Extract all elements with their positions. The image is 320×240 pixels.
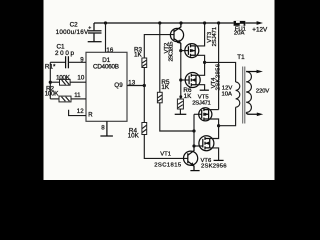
wire VT2 emitter bus <box>180 51 182 99</box>
svg-text:8: 8 <box>101 124 105 131</box>
wire pin 13 Q9 output <box>127 85 144 87</box>
wire R5 to node N1 <box>160 103 194 131</box>
node N2 VT6 gate <box>192 144 195 147</box>
node A primary top <box>203 61 206 64</box>
svg-text:+12V: +12V <box>252 26 268 33</box>
label R1* 100K <box>45 64 71 82</box>
label R6 1K <box>183 87 192 100</box>
ground VT4 source <box>200 89 209 91</box>
wire VT2 base to R3 top <box>144 35 174 58</box>
svg-text:100K: 100K <box>45 90 60 97</box>
svg-text:2SJ471: 2SJ471 <box>192 100 211 106</box>
svg-text:9: 9 <box>80 56 84 63</box>
wire pin 16 <box>105 23 107 52</box>
wire T1 primary bottom to node B <box>219 107 236 126</box>
label C1 200p <box>55 43 74 56</box>
node rail to pin 16 <box>104 21 107 24</box>
wire VT4 gate <box>181 79 189 81</box>
wire VT3 source to rail <box>195 23 204 46</box>
wire bus to R1 <box>50 81 59 83</box>
wire VT6 drain to node B <box>210 126 219 139</box>
node N1 <box>192 129 195 132</box>
wire +12V supply rail <box>94 22 234 24</box>
wire VT5 drain to node B <box>209 119 219 126</box>
wire Q9 node to R4 <box>143 86 145 123</box>
ground R6 <box>175 113 187 115</box>
svg-text:10A: 10A <box>222 92 233 98</box>
wire N1 to N2 <box>193 131 195 146</box>
resistor R6 <box>177 99 183 109</box>
svg-text:Q9: Q9 <box>114 82 123 89</box>
arrowhead secondary top <box>257 70 263 74</box>
wire R1 to pin 10 <box>70 81 86 83</box>
capacitor C1 <box>66 56 69 68</box>
label FU1 20A <box>234 27 246 37</box>
transistor VT5 2SJ471 <box>199 108 212 121</box>
wire bus to R2 <box>50 98 59 100</box>
svg-text:R1*: R1* <box>45 64 56 71</box>
label R2 100K <box>45 85 60 97</box>
svg-text:2SK2956: 2SK2956 <box>201 164 227 170</box>
svg-text:12: 12 <box>77 108 84 115</box>
wire C1 left lead <box>50 61 65 63</box>
node Q9 junction <box>143 84 146 87</box>
svg-text:VT5: VT5 <box>198 94 210 100</box>
svg-text:2SJ471: 2SJ471 <box>212 27 218 47</box>
node VT4 gate <box>179 78 182 81</box>
transistor VT3 2SJ471 <box>185 44 199 58</box>
transistor VT4 2SK2956 <box>185 73 200 88</box>
wire left bus <box>49 62 51 99</box>
label R4 10K <box>128 128 140 140</box>
wire VT5 source stub <box>209 109 219 111</box>
wire node N1 to VT5 gate <box>193 114 195 131</box>
wire VT5 gate <box>194 113 202 115</box>
resistor R1 <box>60 79 71 85</box>
transformer T1 primary winding <box>236 82 240 107</box>
svg-text:T1: T1 <box>237 54 245 61</box>
T1 core <box>243 67 245 124</box>
+12V output arrowhead <box>257 21 263 25</box>
transformer T1 secondary winding <box>246 72 251 113</box>
ground VT6 source <box>214 159 224 161</box>
wire fuse to arrow <box>245 22 257 24</box>
svg-text:16: 16 <box>106 47 113 54</box>
node rail VT5 source <box>217 21 220 24</box>
wire VT4 drain to node A <box>196 62 205 75</box>
IC D1 CD4060B body <box>86 52 127 121</box>
wire VT4 source down <box>196 85 205 91</box>
transistor VT2 2SC1815 <box>170 23 183 51</box>
svg-text:220V: 220V <box>256 88 270 94</box>
resistor R3 <box>142 58 147 68</box>
wire pin 8 down <box>106 121 108 136</box>
transistor VT1 2SC1815 <box>184 146 198 171</box>
wire VT6 source down <box>210 148 219 161</box>
svg-text:20A: 20A <box>234 31 245 37</box>
fuse FU1 <box>234 21 246 26</box>
svg-text:R: R <box>88 113 93 119</box>
svg-text:13: 13 <box>128 80 135 87</box>
resistor R2 <box>59 96 71 102</box>
resistor R4 <box>142 123 147 135</box>
node B primary bottom <box>217 124 220 127</box>
wire VT3 gate <box>181 50 189 52</box>
svg-text:1000u/16V: 1000u/16V <box>56 29 89 36</box>
wire R4 to VT1 base <box>144 135 188 159</box>
svg-text:1K: 1K <box>184 93 193 100</box>
label R3 1K <box>134 46 143 58</box>
node left bus R1 <box>49 81 52 84</box>
wire pin 12 stub <box>69 110 86 116</box>
node rail to R5 <box>158 21 161 24</box>
ground VT1 emitter <box>190 170 199 172</box>
svg-text:200p: 200p <box>55 50 74 57</box>
svg-text:1K: 1K <box>134 51 143 58</box>
label R5 1K <box>161 79 170 91</box>
svg-text:CD4060B: CD4060B <box>93 63 119 70</box>
svg-text:11: 11 <box>74 92 81 99</box>
svg-text:VT1: VT1 <box>160 152 171 158</box>
svg-text:2SC1815: 2SC1815 <box>168 41 174 62</box>
svg-text:10K: 10K <box>128 133 140 140</box>
svg-text:+: + <box>88 26 91 32</box>
wire rail to R5 <box>159 23 161 92</box>
label C2 1000u/16V <box>56 22 89 36</box>
node rail VT2 collector <box>179 21 182 24</box>
node R6 top <box>179 95 182 98</box>
wire rail to VT5 source <box>218 23 220 110</box>
transistor VT6 2SK2956 <box>199 136 214 151</box>
node VT3 gate <box>179 49 182 52</box>
arrowhead secondary bottom <box>257 113 263 117</box>
svg-text:10: 10 <box>77 75 84 82</box>
wire C1 to pin 9 <box>68 61 86 63</box>
wire secondary bottom output <box>246 113 257 115</box>
wire R3 to Q9 node <box>143 68 145 86</box>
svg-text:100K: 100K <box>56 74 71 81</box>
svg-text:2SC1815: 2SC1815 <box>154 163 182 169</box>
resistor R5 <box>157 92 162 103</box>
wire secondary top output <box>246 71 257 73</box>
wire R2 to pin 11 <box>71 98 86 100</box>
svg-text:1K: 1K <box>161 84 170 91</box>
wire node A to T1 primary top <box>205 62 236 82</box>
wire VT6 gate <box>194 145 203 147</box>
capacitor C2 <box>88 23 102 41</box>
svg-text:C2: C2 <box>70 22 79 29</box>
node rail VT3 source <box>203 21 206 24</box>
ground pin 8 <box>100 135 113 137</box>
ground below C2 <box>88 41 102 43</box>
wire R6 to ground <box>179 109 181 114</box>
wire VT3 drain to node A <box>195 55 204 62</box>
